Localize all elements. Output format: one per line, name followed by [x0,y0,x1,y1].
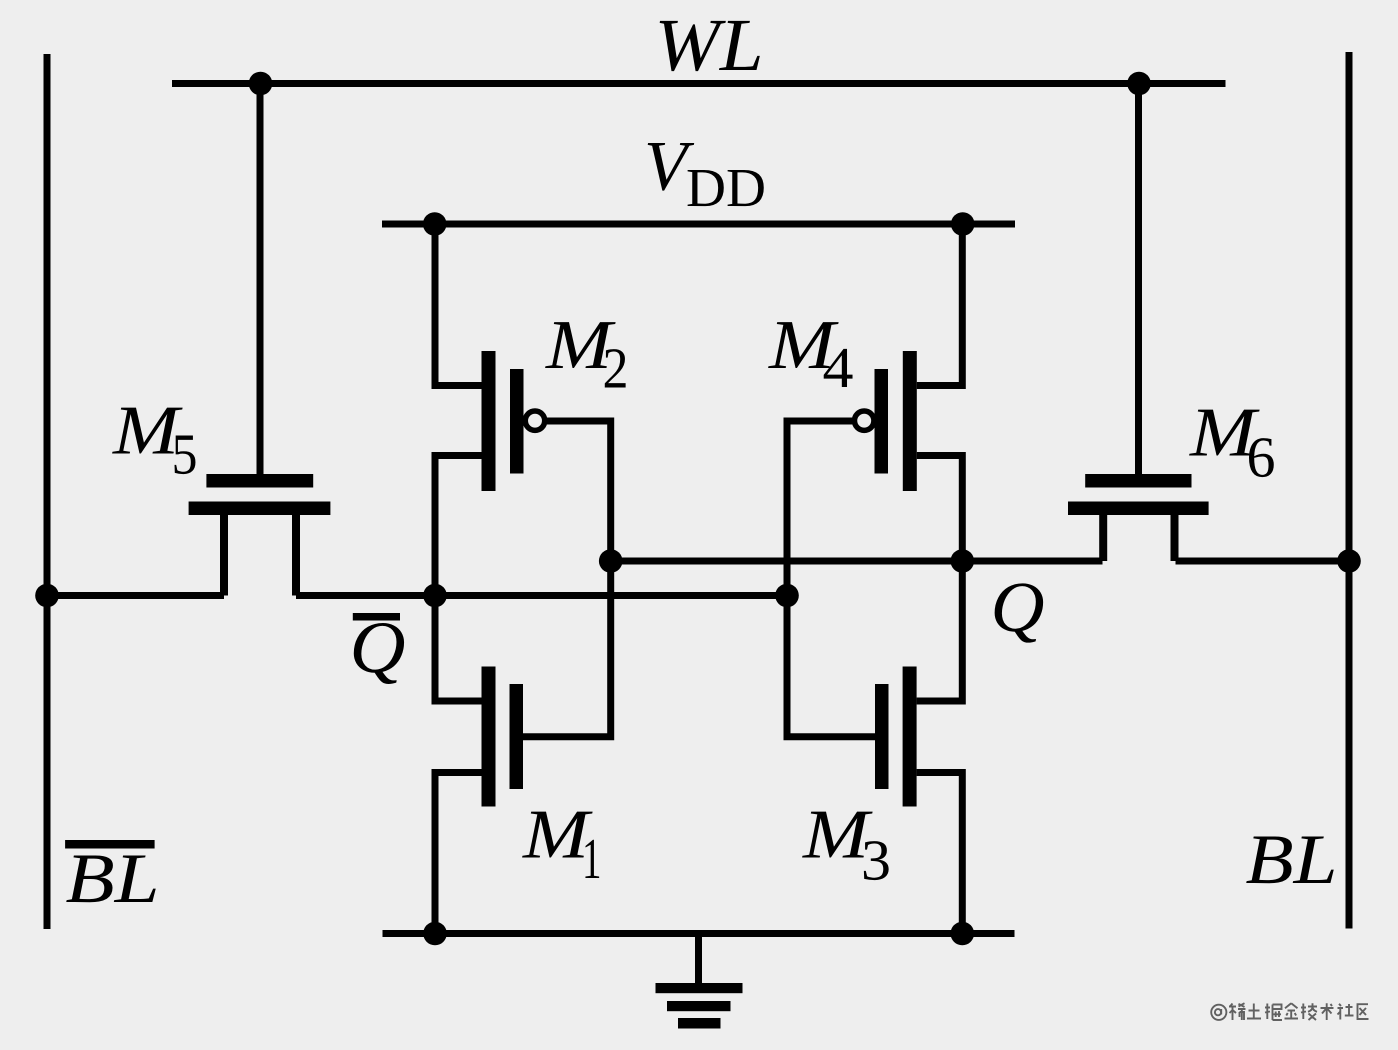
svg-text:1: 1 [582,826,602,891]
transistor M2 channel plate [482,351,496,491]
ground symbol bar 1 [656,983,743,993]
junction dot VDD at M4 source [951,212,975,236]
watermark glyph tu [1247,1004,1261,1019]
svg-text:2: 2 [603,336,629,401]
wire M5 source stub to Qbar [292,508,300,596]
watermark glyph ji [1301,1003,1317,1020]
wire M5 drain stub to BLbar [220,508,228,596]
watermark at-sign [1211,1005,1226,1020]
wire VDD rail [382,221,1015,228]
wire M6 source stub to BL [1171,508,1179,561]
transistor M4 channel plate [903,351,917,491]
transistor M6 gate plate [1085,474,1191,488]
watermark glyph she [1338,1004,1354,1020]
ground symbol bar 2 [667,1001,731,1011]
junction dot node Qbar at M4-M3 gate [775,584,799,608]
junction dot WL at M5 gate [249,72,273,96]
wire M2 drain to node Qbar [435,456,482,596]
wire ground rail [383,930,1015,937]
junction dot node Q at M2-M1 gate [599,549,623,573]
overbar of node Qbar label [353,613,400,621]
watermark juejin community "@稀土掘金技术社区" [1211,1003,1368,1020]
wire bit line BL (right vertical) [1346,52,1353,929]
svg-text:Q: Q [991,567,1045,647]
transistor M5 gate plate [206,474,313,488]
wire ground stem [695,934,702,984]
wire bit line BLbar (left vertical) [44,54,51,929]
junction dot ground rail left [423,922,447,946]
wire node Qbar horizontal [296,592,787,599]
transistor M3 gate plate [875,684,889,789]
svg-text:4: 4 [823,335,854,400]
wire word line WL rail [172,80,1226,87]
watermark glyph qu [1358,1004,1369,1019]
junction dot WL at M6 gate [1127,72,1151,96]
svg-text:BL: BL [66,840,160,918]
transistor M3 channel plate [903,667,917,807]
wire M6 gate from WL [1135,84,1142,477]
svg-text:DD: DD [686,157,766,218]
wire M4 drain down to M3 drain (node Q) [917,456,963,702]
svg-text:6: 6 [1247,424,1276,489]
wire M4 source from VDD [917,224,963,386]
wire M3 source to ground rail [917,773,963,934]
junction dot node Qbar at inverter output [423,584,447,608]
transistor M6 channel plate [1068,502,1209,516]
wire M6 to BL [1176,558,1350,565]
wire BLbar to M5 drain [47,592,224,599]
wire gate tie M2-M1 to node Q [523,421,611,737]
wire M1 drain from node Qbar [435,596,482,702]
watermark glyph shu [1321,1003,1334,1020]
junction dot ground rail right [951,922,975,946]
ground symbol bar 3 [678,1018,721,1029]
transistor M2 PMOS bubble [525,411,544,430]
overbar of BLbar label [65,840,155,849]
junction dot node Q at inverter output [951,549,975,573]
watermark glyph jue [1265,1004,1282,1021]
wire M6 drain stub to Q [1099,508,1107,561]
watermark glyph xi [1229,1003,1246,1020]
watermark glyph jin [1285,1003,1299,1018]
transistor M4 gate plate [875,369,889,474]
svg-text:3: 3 [861,827,891,892]
junction dot VDD at M2 source [423,212,447,236]
svg-text:BL: BL [1246,821,1338,899]
wire gate tie M4-M3 to node Qbar [787,421,876,737]
wire M2 source from VDD [435,224,482,386]
transistor M1 channel plate [482,667,496,807]
junction dot BLbar at M5 [35,584,59,608]
wire M1 source to ground rail [435,773,482,934]
wire M5 gate from WL [257,84,264,477]
transistor M5 channel plate [189,502,331,516]
transistor M1 gate plate [510,684,524,789]
junction dot BL at M6 [1337,549,1361,573]
transistor M4 PMOS bubble [855,411,874,430]
wire node Q horizontal [611,558,1103,565]
transistor M2 gate plate [510,369,524,474]
svg-text:WL: WL [655,4,764,87]
svg-text:5: 5 [172,421,198,486]
